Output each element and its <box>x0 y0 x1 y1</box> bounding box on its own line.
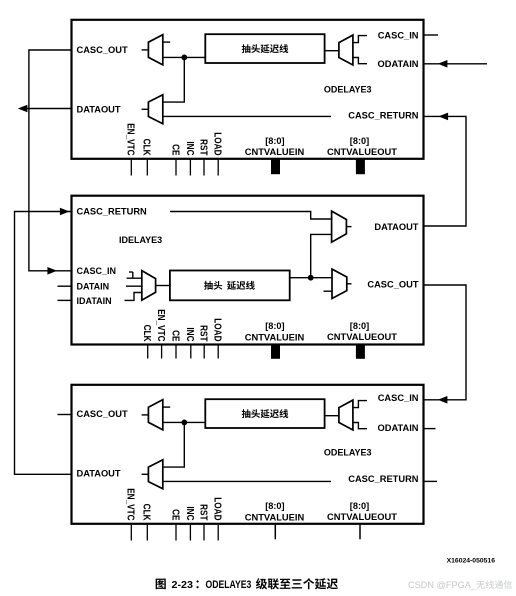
wire U1 CASC_OUT to U2 CASC_IN <box>29 50 72 271</box>
ODELAYE3 U3 wire tap line to input mux <box>325 415 339 417</box>
ODELAYE3 U1 mux CASC_IN/ODATAIN <box>339 35 353 65</box>
svg-text:DATAOUT: DATAOUT <box>374 222 418 232</box>
ODELAYE3 U3 wire CASC_RETURN internal <box>163 480 331 482</box>
U2 label DATAIN <box>77 282 110 292</box>
ODELAYE3 U3 label tap delay line <box>242 409 289 418</box>
ODELAYE3 U1 junction dot <box>181 55 187 61</box>
ODELAYE3 U3 label ODELAYE3 <box>324 448 372 458</box>
svg-text:RST: RST <box>198 139 209 156</box>
ODELAYE3 U1 pin INC <box>185 141 196 175</box>
arrow into U2 CASC_IN <box>47 267 57 275</box>
U2 mux DATAOUT <box>332 211 347 242</box>
arrow into U3 CASC_IN <box>438 396 448 404</box>
svg-text:INC: INC <box>185 327 196 341</box>
block ODELAYE3 U3 outline <box>72 385 424 524</box>
svg-text:CASC_RETURN: CASC_RETURN <box>348 111 419 121</box>
svg-text:RST: RST <box>198 504 209 521</box>
caption 图 2-23：ODELAYE3 级联至三个延迟 <box>156 578 338 591</box>
svg-text:CASC_OUT: CASC_OUT <box>367 280 418 290</box>
figure id X16024-050516 <box>447 558 496 565</box>
U2 tap delay line box <box>170 271 290 301</box>
U2 pin [8:0] CNTVALUEOUT <box>327 321 397 359</box>
svg-text:X16024-050516: X16024-050516 <box>447 558 496 565</box>
svg-text:CE: CE <box>170 144 181 155</box>
ODELAYE3 U3 wire hook CASC_IN <box>353 401 367 408</box>
svg-text:CSDN @FPGA_: CSDN @FPGA_ <box>408 580 477 590</box>
U1 pin [8:0] CNTVALUEIN <box>245 136 305 174</box>
U3 wire CASC_RETURN stub <box>424 480 438 482</box>
U2 wire DATAOUT mux output <box>347 226 352 228</box>
ODELAYE3 U1 wire mux output to CASC_OUT label <box>142 49 149 51</box>
ODELAYE3 U1 label ODELAYE3 <box>324 85 372 95</box>
U2 wire hook IDATAIN <box>125 293 143 301</box>
U2 mux CASC_OUT <box>332 269 347 298</box>
svg-text:CLK: CLK <box>142 325 153 342</box>
ODELAYE3 U1 wire dot to DATAOUT mux <box>164 57 185 102</box>
ODELAYE3 U3 pin INC <box>185 506 196 540</box>
svg-text:CNTVALUEOUT: CNTVALUEOUT <box>327 332 397 342</box>
ODELAYE3 U1 label DATAOUT <box>77 104 121 114</box>
U1 wire CASC_IN stub <box>424 34 439 36</box>
ODELAYE3 U3 label DATAOUT <box>77 468 121 478</box>
block IDELAYE3 U2 outline <box>72 196 424 345</box>
ODELAYE3 U1 pin CLK <box>142 139 153 176</box>
svg-text:CNTVALUEOUT: CNTVALUEOUT <box>327 147 397 157</box>
arrow into U1 CASC_RETURN <box>439 113 449 121</box>
U2 pin CE <box>170 330 181 358</box>
ODELAYE3 U3 label ODATAIN <box>378 423 419 433</box>
U2 wire CASC_OUT mux bottom stub <box>324 290 333 292</box>
ODELAYE3 U1 pin RST <box>198 139 209 175</box>
U1 wire DATAOUT output arrow <box>18 105 72 113</box>
U2 wire DATAIN to mux <box>126 285 143 287</box>
U2 label tap delay line <box>204 281 255 290</box>
U2 wire input mux to tap line <box>156 285 171 287</box>
U2 wire DATAIN stub <box>58 285 72 287</box>
ODELAYE3 U1 label ODATAIN <box>378 59 419 69</box>
U2 pin EN_VTC <box>156 309 167 358</box>
U2 wire CASC_OUT mux output <box>347 283 352 285</box>
ODELAYE3 U3 pin EN_VTC <box>126 488 137 540</box>
ODELAYE3 U1 label CASC_IN <box>378 30 419 40</box>
U2 label IDELAYE3 <box>119 235 162 245</box>
svg-text:ODELAYE3: ODELAYE3 <box>324 448 372 458</box>
U1 wire ODATAIN input <box>424 60 488 68</box>
ODELAYE3 U1 wire tap line output <box>163 56 206 58</box>
arrow into U2 CASC_RETURN <box>60 208 70 216</box>
svg-text:DATAOUT: DATAOUT <box>77 104 121 114</box>
svg-text:CASC_IN: CASC_IN <box>77 266 117 276</box>
ODELAYE3 U1 label CASC_OUT <box>77 45 128 55</box>
svg-text:CE: CE <box>170 509 181 520</box>
wire U2 DATAOUT to U1 CASC_RETURN <box>424 116 467 226</box>
svg-text:CNTVALUEIN: CNTVALUEIN <box>245 512 305 522</box>
ODELAYE3 U3 mux DATAOUT <box>148 460 162 489</box>
svg-text:[8:0]: [8:0] <box>350 136 369 146</box>
svg-text:CASC_IN: CASC_IN <box>378 30 419 40</box>
U3 wire CASC_OUT stub <box>58 414 72 416</box>
U2 pin CLK <box>142 325 153 359</box>
svg-text:CASC_OUT: CASC_OUT <box>77 409 128 419</box>
U2 label DATAOUT <box>374 222 418 232</box>
svg-text:[8:0]: [8:0] <box>265 321 284 331</box>
ODELAYE3 U3 wire hook ODATAIN <box>353 423 367 429</box>
ODELAYE3 U1 mux DATAOUT <box>148 95 162 124</box>
ODELAYE3 U1 wire hook ODATAIN <box>353 58 367 64</box>
svg-text:ODELAYE3: ODELAYE3 <box>206 579 252 591</box>
ODELAYE3 U1 label CASC_RETURN <box>348 111 419 121</box>
wire U2 CASC_OUT to U3 CASC_IN <box>424 285 467 400</box>
ODELAYE3 U1 wire hook CASC_IN <box>353 36 367 43</box>
svg-text:CASC_OUT: CASC_OUT <box>77 45 128 55</box>
ODELAYE3 U3 label CASC_IN <box>378 393 419 403</box>
U2 wire hook CASC_IN <box>127 272 143 278</box>
ODELAYE3 U3 wire dot to DATAOUT mux <box>164 422 185 467</box>
svg-text:INC: INC <box>185 506 196 520</box>
ODELAYE3 U3 mux CASC_IN/ODATAIN <box>339 400 353 430</box>
svg-text:ODATAIN: ODATAIN <box>378 423 419 433</box>
U2 wire tap line output <box>290 277 333 279</box>
svg-text:[8:0]: [8:0] <box>350 501 369 511</box>
svg-text:EN_VTC: EN_VTC <box>126 488 137 521</box>
ODELAYE3 U1 mux CASC_OUT <box>148 35 162 65</box>
svg-text:CLK: CLK <box>142 504 153 521</box>
U2 label CASC_RETURN <box>77 207 148 217</box>
U2 pin [8:0] CNTVALUEIN <box>245 321 305 359</box>
U3 pin [8:0] CNTVALUEOUT <box>327 501 397 539</box>
svg-text:CNTVALUEOUT: CNTVALUEOUT <box>327 512 397 522</box>
svg-text:2-23: 2-23 <box>172 580 194 591</box>
U3 pin [8:0] CNTVALUEIN <box>245 501 305 539</box>
ODELAYE3 U3 pin RST <box>198 504 209 540</box>
ODELAYE3 U3 pin LOAD <box>212 497 223 540</box>
ODELAYE3 U3 mux CASC_OUT <box>148 400 162 430</box>
U2 pin LOAD <box>212 318 223 358</box>
svg-text:CASC_RETURN: CASC_RETURN <box>77 207 148 217</box>
U2 wire CASC_RETURN to DATAOUT mux <box>170 212 332 220</box>
ODELAYE3 U3 pin CLK <box>142 504 153 541</box>
svg-text:[8:0]: [8:0] <box>265 136 284 146</box>
U2 mux input IDATAIN/DATAIN/CASC_IN <box>142 271 156 301</box>
ODELAYE3 U3 label CASC_OUT <box>77 409 128 419</box>
ODELAYE3 U3 pin CE <box>170 509 181 540</box>
watermark CSDN @FPGA_无线通信 <box>408 580 512 590</box>
ODELAYE3 U1 wire CASC_RETURN internal <box>163 115 331 117</box>
U2 label CASC_IN <box>77 266 117 276</box>
U3 wire ODATAIN stub <box>424 428 436 430</box>
svg-text:CNTVALUEIN: CNTVALUEIN <box>245 147 305 157</box>
svg-text:DATAOUT: DATAOUT <box>77 468 121 478</box>
svg-text:CE: CE <box>170 330 181 341</box>
ODELAYE3 U3 label CASC_RETURN <box>348 474 419 484</box>
svg-text:RST: RST <box>198 325 209 342</box>
svg-text:IDELAYE3: IDELAYE3 <box>119 235 162 245</box>
svg-text:LOAD: LOAD <box>212 318 223 342</box>
svg-text:CASC_IN: CASC_IN <box>378 393 419 403</box>
ODELAYE3 U1 pin CE <box>170 144 181 175</box>
U2 pin INC <box>185 327 196 358</box>
ODELAYE3 U1 pin LOAD <box>212 132 223 175</box>
U2 wire IDATAIN stub <box>58 299 72 301</box>
ODELAYE3 U3 wire mux output to DATAOUT label <box>142 473 149 475</box>
svg-text:[8:0]: [8:0] <box>350 321 369 331</box>
ODELAYE3 U3 wire mux output to CASC_OUT label <box>142 414 149 416</box>
svg-text:LOAD: LOAD <box>212 132 223 156</box>
U2 junction dot <box>308 275 314 281</box>
svg-text:EN_VTC: EN_VTC <box>126 123 137 156</box>
ODELAYE3 U1 pin EN_VTC <box>126 123 137 175</box>
svg-text:LOAD: LOAD <box>212 497 223 521</box>
svg-text:DATAIN: DATAIN <box>77 282 110 292</box>
U2 pin RST <box>198 325 209 358</box>
svg-text:EN_VTC: EN_VTC <box>156 309 167 342</box>
U2 label IDATAIN <box>77 296 112 306</box>
ODELAYE3 U1 wire mux top input stub <box>163 41 170 43</box>
svg-text:CNTVALUEIN: CNTVALUEIN <box>245 332 305 342</box>
svg-text:[8:0]: [8:0] <box>265 501 284 511</box>
ODELAYE3 U1 label tap delay line <box>242 44 289 53</box>
svg-text:ODELAYE3: ODELAYE3 <box>324 85 372 95</box>
ODELAYE3 U3 tap delay line box <box>205 399 324 428</box>
ODELAYE3 U1 wire mux output to DATAOUT label <box>142 108 149 110</box>
wire U3 DATAOUT to U2 CASC_RETURN <box>15 212 72 475</box>
svg-text:INC: INC <box>185 141 196 155</box>
ODELAYE3 U3 junction dot <box>181 420 187 426</box>
U2 label CASC_OUT <box>367 280 418 290</box>
ODELAYE3 U1 tap delay line box <box>205 34 324 63</box>
svg-text:CLK: CLK <box>142 139 153 156</box>
block ODELAYE3 U1 outline <box>72 20 424 159</box>
U1 pin [8:0] CNTVALUEOUT <box>327 136 397 174</box>
ODELAYE3 U3 wire mux top input stub <box>163 406 170 408</box>
svg-text:ODATAIN: ODATAIN <box>378 59 419 69</box>
svg-text:IDATAIN: IDATAIN <box>77 296 112 306</box>
svg-text:CASC_RETURN: CASC_RETURN <box>348 474 419 484</box>
ODELAYE3 U1 wire tap line to input mux <box>325 50 339 52</box>
ODELAYE3 U3 wire tap line output <box>163 421 206 423</box>
U2 wire dot up to DATAOUT mux <box>311 234 333 277</box>
